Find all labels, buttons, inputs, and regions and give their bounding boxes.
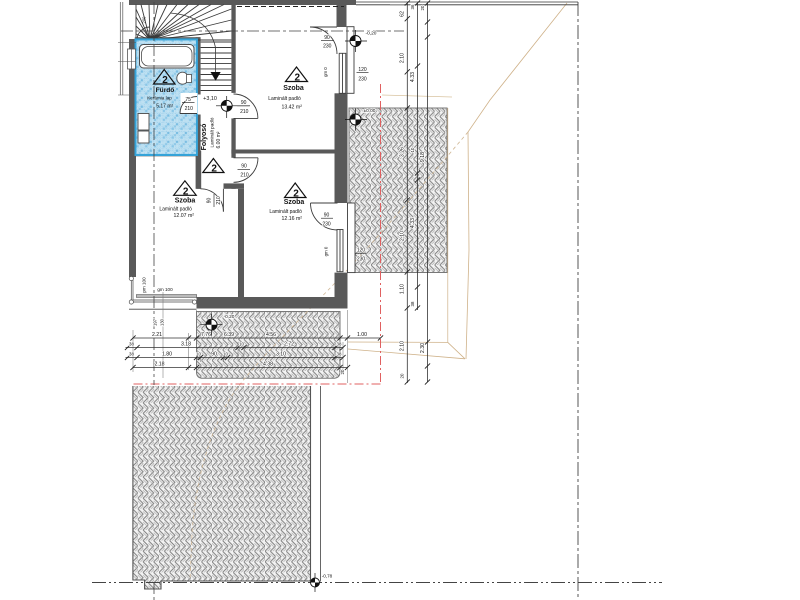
svg-text:2.10: 2.10 [400, 231, 406, 241]
svg-text:38: 38 [129, 352, 134, 357]
triangle room3 [285, 183, 307, 198]
room1 bottom wall [231, 150, 337, 154]
svg-text:1.80: 1.80 [162, 352, 172, 358]
svg-text:2: 2 [162, 75, 168, 86]
svg-text:pm 100: pm 100 [142, 277, 147, 293]
big lower terrace hatch [133, 386, 311, 589]
svg-text:2.21: 2.21 [152, 332, 162, 338]
svg-text:1.00: 1.00 [357, 332, 367, 338]
svg-text:2: 2 [295, 73, 301, 84]
stair down arrow [211, 72, 221, 81]
right wall lower [335, 273, 348, 299]
svg-text:Szoba: Szoba [175, 198, 196, 205]
chain row 4 [133, 367, 348, 369]
eave line above right terrace [382, 95, 452, 97]
marker +3,10 corridor [203, 96, 250, 118]
svg-text:Kerámia lap: Kerámia lap [147, 96, 172, 101]
svg-text:7.76: 7.76 [201, 332, 211, 338]
svg-text:4.56: 4.56 [266, 332, 276, 338]
svg-text:Szoba: Szoba [283, 85, 304, 92]
svg-text:-0,20: -0,20 [366, 31, 377, 37]
vertical chain V2 [417, 3, 419, 310]
svg-text:2.18: 2.18 [154, 362, 164, 368]
svg-text:20: 20 [340, 369, 345, 374]
vertical chain V1 [406, 3, 408, 383]
stair winder fan [136, 5, 231, 41]
dashed setback curve (tan) [190, 132, 468, 580]
svg-text:90: 90 [241, 164, 247, 170]
right wall mid (between window1 and window2) [335, 93, 348, 203]
svg-text:36: 36 [410, 4, 415, 9]
svg-text:38: 38 [337, 352, 342, 357]
svg-text:Laminált padló: Laminált padló [269, 209, 302, 215]
straight flight treads [201, 42, 232, 86]
svg-text:130: 130 [160, 318, 165, 326]
svg-text:90: 90 [207, 198, 213, 204]
svg-text:Folyosó: Folyosó [201, 124, 208, 151]
svg-text:230: 230 [322, 222, 331, 228]
stair left boundary [135, 5, 137, 38]
window-door set 1 (top room) [310, 27, 354, 94]
marker -0,78 bottom [311, 573, 333, 592]
lower terrace outer edge line [320, 386, 322, 582]
svg-text:210: 210 [185, 106, 194, 112]
svg-text:38: 38 [337, 342, 342, 347]
boundary diagonal top right [466, 3, 567, 359]
hidden dashed line under top wall [237, 6, 344, 8]
cabinet 1 [138, 114, 149, 131]
svg-text:210: 210 [240, 109, 249, 115]
svg-text:90: 90 [324, 35, 330, 41]
tiled floor [135, 39, 198, 156]
svg-text:+3,10: +3,10 [203, 96, 217, 102]
door corridor-room3 (90/210) [234, 158, 259, 183]
svg-text:10: 10 [196, 352, 201, 357]
marker -0,20 bottom terrace [201, 314, 235, 336]
svg-text:120: 120 [357, 248, 366, 254]
triangle corridor [203, 159, 224, 173]
svg-text:2: 2 [183, 186, 189, 197]
horizontal dash-dot section line [121, 30, 404, 32]
red regulation dash-dot line [133, 84, 381, 384]
svg-text:90: 90 [241, 100, 247, 106]
svg-text:197: 197 [153, 318, 158, 326]
left wall window of bathroom [128, 49, 136, 69]
svg-text:±0,00: ±0,00 [364, 108, 376, 114]
svg-text:38: 38 [129, 342, 134, 347]
svg-text:Szoba: Szoba [284, 199, 305, 206]
divider wall rooms 2-3 [238, 189, 244, 297]
svg-text:6.00 m²: 6.00 m² [216, 131, 222, 148]
left wall bathroom/room2 [129, 39, 136, 277]
svg-text:-0,20: -0,20 [224, 314, 235, 320]
svg-text:4.33: 4.33 [410, 72, 416, 82]
door bathroom (75/210) [181, 93, 198, 114]
svg-text:4.38: 4.38 [263, 362, 273, 368]
chain row 3 [126, 357, 344, 359]
door corridor-room2 (90/210) [201, 189, 224, 212]
terrace hatch bottom strip [197, 312, 341, 379]
svg-text:230: 230 [357, 257, 366, 263]
svg-text:5.17 m²: 5.17 m² [156, 103, 173, 109]
top reference double line [356, 2, 578, 5]
blue border [136, 39, 197, 155]
door corridor-room1 (90/210) [234, 94, 258, 118]
bathtub [140, 45, 195, 69]
svg-text:2: 2 [211, 164, 217, 175]
vertical chain V3 [427, 3, 429, 382]
left edge thin lines [120, 2, 123, 95]
svg-text:12.07 m²: 12.07 m² [174, 213, 195, 219]
svg-text:gm 0: gm 0 [324, 246, 329, 256]
terrace hatch right [349, 108, 447, 273]
svg-text:90: 90 [211, 352, 217, 358]
svg-text:210: 210 [216, 196, 222, 205]
landing edge [201, 90, 232, 92]
svg-text:12.16 m²: 12.16 m² [282, 216, 303, 222]
marker -0,20 top [345, 30, 377, 52]
chain row 2 [126, 347, 344, 349]
chain row 1 [133, 337, 381, 339]
svg-text:200: 200 [142, 16, 147, 24]
window frame [137, 295, 197, 298]
svg-text:Fürdő: Fürdő [156, 87, 175, 94]
outer sill box [347, 27, 354, 94]
cabinet 2 [138, 131, 149, 143]
bathroom bottom wall [135, 151, 201, 157]
svg-text:10: 10 [223, 352, 228, 357]
svg-text:6.39: 6.39 [224, 332, 234, 338]
svg-text:3.10: 3.10 [276, 352, 286, 358]
boundary corner segs bottom right [348, 342, 465, 359]
svg-text:10: 10 [410, 147, 415, 152]
slab edge [129, 308, 197, 310]
svg-text:20: 20 [400, 373, 405, 378]
door leaf set1 [310, 26, 337, 28]
svg-text:120: 120 [358, 67, 367, 73]
right vertical dash-dot [577, 2, 579, 600]
svg-text:38: 38 [410, 301, 415, 306]
window-door set 2 (room3) [311, 203, 356, 273]
svg-text:Laminált padló: Laminált padló [268, 96, 301, 102]
svg-text:2.10: 2.10 [400, 341, 406, 351]
svg-text:1.10: 1.10 [400, 284, 406, 294]
toilet [177, 72, 188, 84]
svg-text:gm 100: gm 100 [157, 287, 173, 292]
svg-text:62: 62 [400, 11, 406, 17]
svg-text:3.18: 3.18 [181, 342, 191, 348]
vertical dash-dot axis x154 [153, 2, 155, 600]
window frame [339, 53, 346, 93]
corridor right wall lower [231, 184, 235, 189]
svg-text:20: 20 [420, 5, 425, 10]
marker ±0,00 terrace [345, 108, 376, 131]
corridor left wall (below bathroom) [196, 151, 202, 189]
top wall [129, 0, 356, 5]
walking line [170, 13, 216, 74]
svg-text:-0,78: -0,78 [322, 574, 333, 579]
bottom wall [197, 297, 348, 309]
door arc set1 [310, 27, 337, 54]
svg-text:3.26: 3.26 [400, 147, 406, 157]
svg-text:9.18: 9.18 [420, 152, 426, 162]
bathroom right wall lower [196, 115, 201, 156]
svg-text:75: 75 [185, 97, 191, 103]
triangle bathroom [154, 70, 176, 85]
svg-text:2.10: 2.10 [400, 53, 406, 63]
svg-text:10: 10 [239, 342, 244, 347]
svg-text:230: 230 [323, 44, 332, 50]
svg-text:90: 90 [324, 213, 330, 219]
svg-text:230: 230 [358, 77, 367, 83]
svg-text:2.72: 2.72 [284, 342, 294, 348]
triangle room2 [174, 181, 197, 196]
svg-text:Laminált padló: Laminált padló [210, 117, 215, 147]
bathroom top wall [135, 37, 200, 42]
railing [130, 278, 132, 302]
svg-text:2.30: 2.30 [420, 343, 426, 353]
svg-text:Laminált padló: Laminált padló [159, 207, 192, 213]
bottom dash-dot line [92, 582, 662, 584]
triangle room1 [286, 67, 308, 82]
corridor right wall mid [231, 118, 235, 157]
svg-text:210: 210 [240, 173, 249, 179]
svg-text:gm 0: gm 0 [323, 67, 328, 77]
corridor bottom wall stubs [197, 183, 201, 188]
right wall top stub [337, 5, 347, 28]
svg-text:4.33: 4.33 [410, 218, 416, 228]
svg-text:13.42 m²: 13.42 m² [281, 104, 302, 110]
bathroom right wall upper (stairs side) [196, 37, 201, 94]
stair / corridor right wall upper [231, 5, 235, 93]
